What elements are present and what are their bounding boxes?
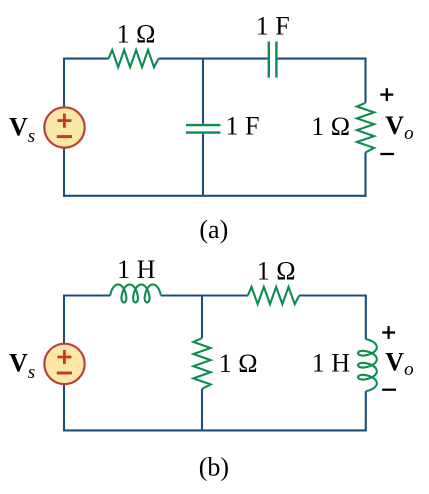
- svg-text:(b): (b): [199, 452, 229, 481]
- svg-text:1 Ω: 1 Ω: [219, 349, 258, 378]
- wire: top segment C1 to right corner (a): [278, 58, 366, 60]
- svg-text:1 H: 1 H: [312, 349, 351, 378]
- wire: top segment between L1 and R3 (b): [161, 294, 248, 296]
- svg-text:1 Ω: 1 Ω: [257, 257, 296, 286]
- wire: middle branch lower (b): [201, 389, 203, 431]
- wire: bottom node (b): [64, 429, 366, 431]
- wire: right branch upper (a): [364, 58, 366, 103]
- wire: left branch upper (a): [63, 58, 65, 107]
- capacitor C2 1 F shunt (a): [186, 125, 221, 133]
- wire: left branch upper (b): [63, 294, 65, 343]
- minus sign of Vo (a): [380, 153, 394, 155]
- capacitor C1 1 F series (a): [269, 42, 277, 78]
- svg-text:Vo: Vo: [385, 111, 413, 144]
- svg-text:1 Ω: 1 Ω: [117, 19, 156, 48]
- voltage source Vs (a): [44, 107, 84, 147]
- wire: bottom node (a): [64, 195, 366, 197]
- wire: left branch lower (a): [63, 148, 65, 197]
- wire: right branch lower (b): [365, 391, 367, 431]
- svg-text:Vo: Vo: [385, 347, 413, 380]
- plus sign of Vo (b): [382, 326, 395, 339]
- wire: left branch lower (b): [63, 385, 65, 432]
- inductor L1 1 H series (b): [110, 285, 161, 303]
- plus sign of Vo (a): [380, 88, 393, 101]
- wire: middle branch upper (b): [201, 296, 203, 339]
- svg-text:1 Ω: 1 Ω: [311, 112, 350, 141]
- svg-text:Vs: Vs: [9, 112, 35, 147]
- wire: node 1 top-left segment (a): [64, 58, 109, 60]
- resistor R3 1 ohm series (b): [248, 287, 299, 304]
- minus sign of Vo (b): [382, 389, 396, 391]
- wire: top segment between R1 and C1 (a): [159, 58, 268, 60]
- wire: right branch lower (a): [364, 152, 366, 196]
- resistor R1 1 ohm series (a): [109, 50, 159, 67]
- inductor L2 1 H load (b): [358, 339, 377, 391]
- svg-text:Vs: Vs: [9, 349, 35, 384]
- resistor R4 1 ohm shunt (b): [193, 338, 210, 389]
- wire: middle branch lower (a): [202, 134, 204, 196]
- svg-text:1 H: 1 H: [117, 255, 156, 284]
- wire: right branch upper (b): [365, 294, 367, 339]
- svg-text:1 F: 1 F: [256, 12, 290, 41]
- wire: middle branch upper (a): [202, 59, 204, 124]
- svg-text:1 F: 1 F: [226, 112, 260, 141]
- wire: top segment R3 to right corner (b): [299, 294, 366, 296]
- voltage source Vs (b): [44, 344, 84, 384]
- wire: node 1 top-left segment (b): [64, 294, 110, 296]
- resistor R2 1 ohm load (a): [357, 103, 374, 153]
- svg-text:(a): (a): [199, 215, 228, 244]
